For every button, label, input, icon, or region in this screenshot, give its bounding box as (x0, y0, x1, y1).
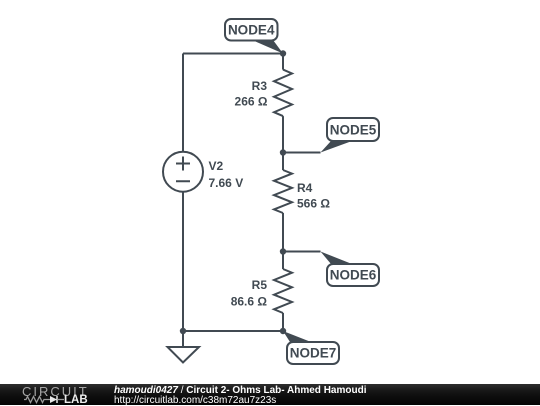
resistor R5 (274, 269, 292, 313)
node C junction node6 (280, 248, 286, 254)
flag NODE7 (283, 331, 339, 364)
resistor R4 (274, 170, 292, 213)
svg-text:566 Ω: 566 Ω (297, 196, 330, 210)
flag NODE6 (321, 252, 380, 287)
wire R5 to bottom junction (282, 313, 284, 331)
wire node5 stub (283, 152, 321, 154)
wire left vertical lower (182, 192, 184, 331)
svg-text:V2: V2 (209, 159, 224, 173)
node D junction bottom right (280, 328, 286, 334)
ground stub wire (182, 331, 184, 347)
flag NODE4 (225, 19, 283, 54)
svg-text:R3: R3 (252, 79, 268, 93)
wire node6 stub (283, 251, 321, 253)
voltage source V2 (163, 152, 203, 192)
svg-text:NODE6: NODE6 (330, 268, 377, 283)
wire left vertical upper (182, 54, 184, 152)
wire top horizontal (183, 53, 283, 55)
footer logo CIRCUIT (0, 384, 110, 405)
logo resistor squiggle (24, 397, 50, 403)
svg-text:266 Ω: 266 Ω (235, 95, 268, 109)
flag NODE5 (321, 118, 380, 153)
svg-text:86.6 Ω: 86.6 Ω (231, 295, 268, 309)
wire node6 junction to R5 (282, 252, 284, 270)
wire R4 to node6 junction (282, 213, 284, 252)
logo diode (50, 396, 57, 403)
svg-text:NODE4: NODE4 (228, 23, 275, 38)
svg-text:7.66 V: 7.66 V (209, 176, 244, 190)
svg-text:LAB: LAB (64, 394, 88, 405)
ground (168, 347, 200, 363)
node E junction bottom left (180, 328, 186, 334)
svg-text:R5: R5 (252, 278, 268, 292)
svg-text:NODE5: NODE5 (330, 123, 377, 138)
wire node5 junction to R4 (282, 153, 284, 171)
resistor R3 (274, 70, 292, 117)
footer line 2 (114, 395, 276, 406)
node B junction node5 (280, 149, 286, 155)
node A junction top (280, 50, 286, 56)
wire R3 to node5 junction (282, 116, 284, 152)
footer bar (0, 384, 540, 405)
wire right vertical top stub (282, 54, 284, 70)
svg-text:R4: R4 (297, 181, 313, 195)
svg-text:NODE7: NODE7 (290, 346, 337, 361)
footer line 1 (114, 385, 366, 396)
wire bottom horizontal (183, 330, 283, 332)
